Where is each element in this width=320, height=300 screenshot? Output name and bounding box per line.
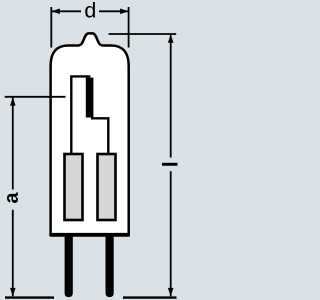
l dimension: upper line segment bbox=[170, 34, 172, 158]
bulb bottom edge (pinch seal base line) bbox=[49, 233, 129, 236]
bottom reference plane, right segment bbox=[123, 296, 177, 298]
d dimension: left extension line bbox=[50, 7, 52, 48]
d dimension: left arrowhead bbox=[51, 9, 59, 15]
l dimension: lower arrowhead bbox=[168, 288, 174, 296]
a dimension: lower line segment bbox=[12, 210, 14, 296]
a dimension: lower arrowhead bbox=[10, 288, 16, 296]
right base pin bbox=[106, 235, 114, 297]
l dimension: lower line segment bbox=[170, 171, 172, 296]
filament bbox=[86, 78, 94, 118]
bottom reference plane, left segment bbox=[5, 296, 54, 298]
bulb envelope outline (glass capsule with exhaust tip bump) bbox=[51, 33, 129, 235]
d dimension: right extension line bbox=[128, 7, 130, 48]
left molybdenum foil bbox=[65, 154, 83, 220]
right lead wire bbox=[91, 118, 108, 154]
a dimension: upper line segment bbox=[12, 97, 14, 190]
l dimension: upper arrowhead bbox=[168, 34, 174, 42]
svg-text:d: d bbox=[84, 0, 96, 23]
right molybdenum foil bbox=[98, 154, 116, 220]
svg-text:a: a bbox=[1, 192, 23, 204]
left base pin bbox=[65, 235, 73, 297]
a dimension: upper arrowhead bbox=[10, 97, 16, 105]
d dimension: right arrow line bbox=[99, 10, 128, 12]
l dimension: top extension line (overall length reference) bbox=[109, 33, 177, 35]
left lead wire bbox=[71, 76, 90, 154]
d dimension: left arrow line bbox=[52, 10, 81, 12]
a dimension: top extension line (light centre) bbox=[5, 96, 66, 98]
svg-text:l: l bbox=[158, 161, 182, 167]
d dimension: right arrowhead bbox=[120, 9, 128, 15]
